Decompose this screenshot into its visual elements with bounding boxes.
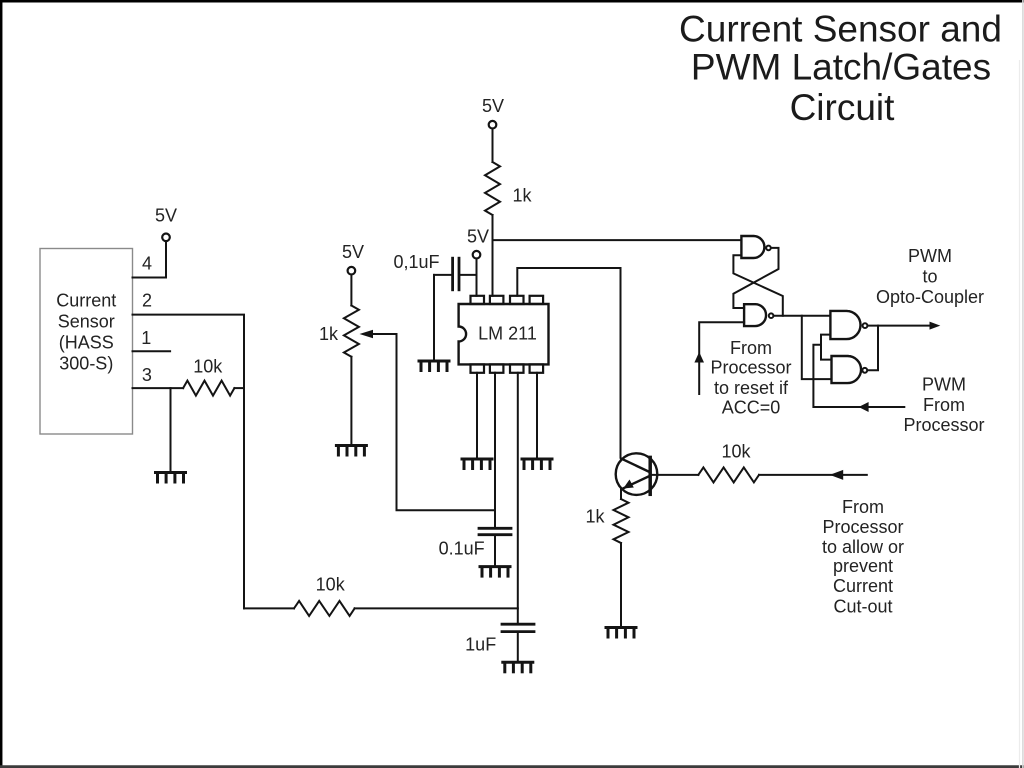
- wire gate C input2 / gate D input1 staircase: [821, 335, 832, 360]
- svg-text:PWM: PWM: [922, 375, 966, 395]
- svg-text:Cut-out: Cut-out: [833, 596, 892, 616]
- wire gate D output up to gate C output: [868, 326, 878, 371]
- nand gate D bubble: [862, 368, 867, 373]
- capacitor C1 0,1uF leads: [434, 274, 451, 276]
- svg-text:10k: 10k: [721, 441, 751, 461]
- wire emitter to R5: [620, 489, 622, 499]
- wire pin2 of sensor to vertical bus and bottom 10k: [133, 315, 245, 609]
- svg-text:PWM Latch/Gates: PWM Latch/Gates: [691, 47, 991, 88]
- svg-text:3: 3: [142, 365, 152, 385]
- wire T3 to pot: [350, 275, 352, 306]
- transistor Q1 emitter diagonal: [622, 476, 650, 489]
- ground G1: [156, 473, 186, 483]
- svg-text:4: 4: [142, 254, 152, 274]
- transistor Q1 emitter arrow: [623, 480, 634, 489]
- capacitor C3 1uF plates: [502, 623, 534, 626]
- svg-text:PWM: PWM: [908, 246, 952, 266]
- wire base to R4: [650, 474, 699, 476]
- wire T4 to IC pin top1: [476, 259, 478, 296]
- svg-text:Current: Current: [833, 576, 893, 596]
- ground G5: [522, 459, 552, 469]
- arrow AR5 left: [859, 402, 869, 412]
- wire R2 to bus: [234, 387, 244, 389]
- svg-text:Sensor: Sensor: [58, 312, 115, 332]
- nand gate A bubble: [766, 246, 771, 251]
- svg-text:to allow or: to allow or: [822, 537, 904, 557]
- wire gate A output cross to gate B input1: [733, 248, 778, 308]
- wire gate B input2 from reset: [699, 322, 744, 394]
- resistor R2 10k: [183, 381, 234, 396]
- wire C1 to ground: [433, 275, 435, 361]
- svg-text:LM 211: LM 211: [478, 323, 537, 343]
- pin stubs top: [471, 296, 485, 304]
- svg-text:Processor: Processor: [710, 358, 791, 378]
- wire PWM input to staircase: [813, 345, 904, 407]
- wire wiper to pin bus: [372, 334, 495, 510]
- wire junction to gate D input2: [802, 316, 832, 379]
- nand gate C bubble: [863, 323, 868, 328]
- svg-text:1uF: 1uF: [465, 635, 496, 655]
- resistor R1 1k: [485, 162, 500, 215]
- wire R3 to node C3: [355, 607, 518, 609]
- pin stubs bottom: [471, 364, 485, 372]
- wire gate C output to PWM out: [868, 325, 930, 327]
- svg-text:Processor: Processor: [822, 517, 903, 537]
- svg-text:From: From: [730, 338, 772, 358]
- svg-text:1k: 1k: [585, 507, 605, 527]
- border frame: [0, 0, 1024, 2]
- svg-text:1: 1: [141, 328, 151, 348]
- wire pot to ground: [350, 357, 352, 446]
- arrow AR2 up: [694, 352, 704, 363]
- wire gate A input2 cross from gate B output: [733, 255, 782, 315]
- svg-text:0.1uF: 0.1uF: [439, 539, 485, 559]
- svg-text:prevent: prevent: [833, 556, 893, 576]
- wire bottom 10k left lead: [244, 607, 294, 609]
- wire pin1 stub: [133, 350, 171, 352]
- svg-text:5V: 5V: [342, 242, 364, 262]
- terminal 5V T2: [489, 121, 497, 129]
- wire gate B output to gate C: [774, 315, 830, 317]
- svg-text:to: to: [922, 267, 937, 287]
- resistor R3 10k: [294, 601, 355, 616]
- node 5V rail to latch: [493, 239, 742, 241]
- terminal 5V T4: [473, 251, 481, 259]
- wire pin3 of sensor: [133, 387, 184, 389]
- nand gate B body: [744, 304, 766, 326]
- nand gate A body: [741, 236, 764, 258]
- arrow AR3 left: [830, 470, 844, 480]
- svg-text:300-S): 300-S): [59, 354, 113, 374]
- wire pin4 of sensor: [133, 241, 167, 278]
- nand gate B bubble: [769, 313, 774, 318]
- op-amp U1 LM211 body: [459, 304, 549, 364]
- wire pin3 to ground: [170, 388, 172, 472]
- sensor U2 box: Current Sensor (HASS 300-S): [40, 249, 133, 435]
- wire IC pin bot1 to ground: [476, 373, 478, 459]
- svg-text:(HASS: (HASS: [59, 333, 114, 353]
- svg-text:5V: 5V: [482, 96, 504, 116]
- transistor Q1 bar: [648, 457, 652, 494]
- ground G3: [419, 361, 449, 371]
- svg-text:to reset if: to reset if: [714, 378, 789, 398]
- wire T2 to R1: [492, 129, 494, 162]
- svg-text:5V: 5V: [467, 226, 489, 246]
- wire IC pin bot3 to C3: [517, 373, 519, 624]
- svg-text:0,1uF: 0,1uF: [393, 252, 439, 272]
- svg-text:Current: Current: [56, 291, 116, 311]
- ground G8: [606, 628, 636, 638]
- wire IC pin top3 to transistor collector: [517, 268, 620, 458]
- svg-text:Processor: Processor: [903, 415, 984, 435]
- terminal 5V T3: [348, 267, 356, 275]
- ground G4: [462, 459, 492, 469]
- potentiometer P1 1k: [344, 306, 359, 357]
- svg-text:10k: 10k: [316, 574, 346, 594]
- ground G2: [336, 446, 366, 456]
- wire IC pin bot2 to C2: [494, 373, 496, 529]
- svg-text:From: From: [842, 497, 884, 517]
- svg-text:ACC=0: ACC=0: [722, 397, 781, 417]
- capacitor C2 0.1uF plates: [479, 527, 511, 530]
- arrow AR4 right: [930, 322, 941, 330]
- wire R5 to ground: [620, 543, 622, 628]
- wire R1 to IC pin top2: [492, 215, 494, 296]
- capacitor C1 plates: [451, 258, 454, 290]
- svg-text:From: From: [923, 395, 965, 415]
- resistor R5 1k: [614, 499, 629, 543]
- resistor R4 10k: [698, 467, 759, 482]
- svg-text:1k: 1k: [512, 186, 532, 206]
- svg-text:5V: 5V: [155, 205, 177, 225]
- wire R4 to right: [759, 474, 867, 476]
- wire C3 to ground: [517, 632, 519, 663]
- ground G7: [503, 662, 533, 672]
- svg-text:1k: 1k: [319, 324, 339, 344]
- pot wiper arrow: [360, 330, 374, 339]
- nand gate D body: [832, 356, 862, 383]
- wire C2 to ground: [494, 535, 496, 567]
- nand gate C body: [830, 311, 860, 339]
- svg-text:Circuit: Circuit: [790, 87, 896, 128]
- svg-text:10k: 10k: [193, 356, 223, 376]
- svg-text:Current Sensor and: Current Sensor and: [679, 8, 1002, 49]
- transistor Q1 collector diagonal: [621, 459, 649, 472]
- terminal 5V T1: [162, 234, 170, 242]
- ground G6: [480, 567, 510, 577]
- svg-text:2: 2: [142, 291, 152, 311]
- transistor Q1 circle: [616, 453, 658, 495]
- svg-text:Opto-Coupler: Opto-Coupler: [876, 287, 984, 307]
- wire IC pin bot4 to ground: [536, 373, 538, 459]
